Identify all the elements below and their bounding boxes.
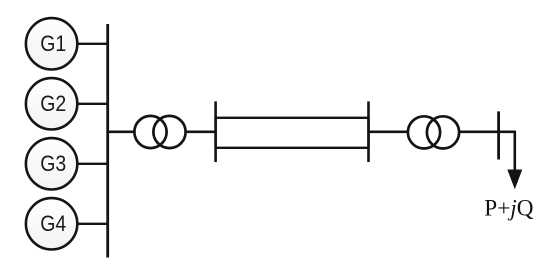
transmission line left terminal bar: [214, 101, 217, 162]
wire transformer T1 to line terminal: [187, 131, 216, 134]
wire G3 to bus: [77, 163, 107, 165]
transmission line right terminal bar: [367, 101, 370, 162]
generator G3: [26, 138, 77, 189]
load arrow: [507, 170, 522, 190]
transmission line TL (rectangle): [216, 118, 369, 148]
generator G2: [26, 78, 77, 129]
wire line terminal to transformer T2: [369, 131, 408, 134]
svg-text:P+jQ: P+jQ: [484, 196, 533, 222]
generator G4: [26, 198, 77, 249]
generator G1: [26, 18, 77, 69]
wire G1 to bus: [77, 43, 107, 45]
transformer T1: [134, 116, 185, 148]
wire down to load arrow: [513, 131, 516, 172]
transformer T2: [408, 116, 459, 148]
svg-text:G1: G1: [40, 31, 66, 56]
bus B1: [106, 24, 109, 258]
bus B2 (load bus): [497, 111, 500, 159]
svg-text:G4: G4: [40, 211, 66, 236]
svg-text:G3: G3: [40, 151, 66, 176]
wire transformer T2 to load bus: [460, 131, 516, 134]
wire bus B1 to transformer T1: [108, 131, 134, 134]
svg-text:G2: G2: [40, 91, 66, 116]
wire G2 to bus: [77, 103, 107, 105]
wire G4 to bus: [77, 223, 107, 225]
